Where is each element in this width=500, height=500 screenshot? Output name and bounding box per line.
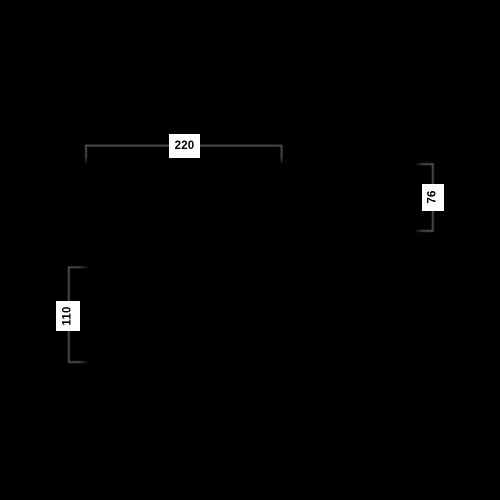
node: label 110 xyxy=(56,301,80,331)
node: label 220 xyxy=(169,134,200,158)
wire: 110 vertical dimension line xyxy=(68,267,70,363)
wire: 76 bottom extension stub (fades leftward) xyxy=(415,230,434,232)
wire: 220 right extension tick (fades downward) xyxy=(281,145,283,165)
wire: 76 top extension stub (fades leftward) xyxy=(415,163,434,165)
wire: 220 left extension tick (fades downward) xyxy=(85,145,87,165)
wire: 76 vertical dimension line xyxy=(432,163,434,231)
wire: 110 bottom extension stub (fades rightward) xyxy=(68,361,89,363)
wire: 220 horizontal dimension line xyxy=(85,145,282,147)
node: label 76 xyxy=(422,184,444,211)
wire: 110 top extension stub (fades rightward) xyxy=(68,266,89,268)
